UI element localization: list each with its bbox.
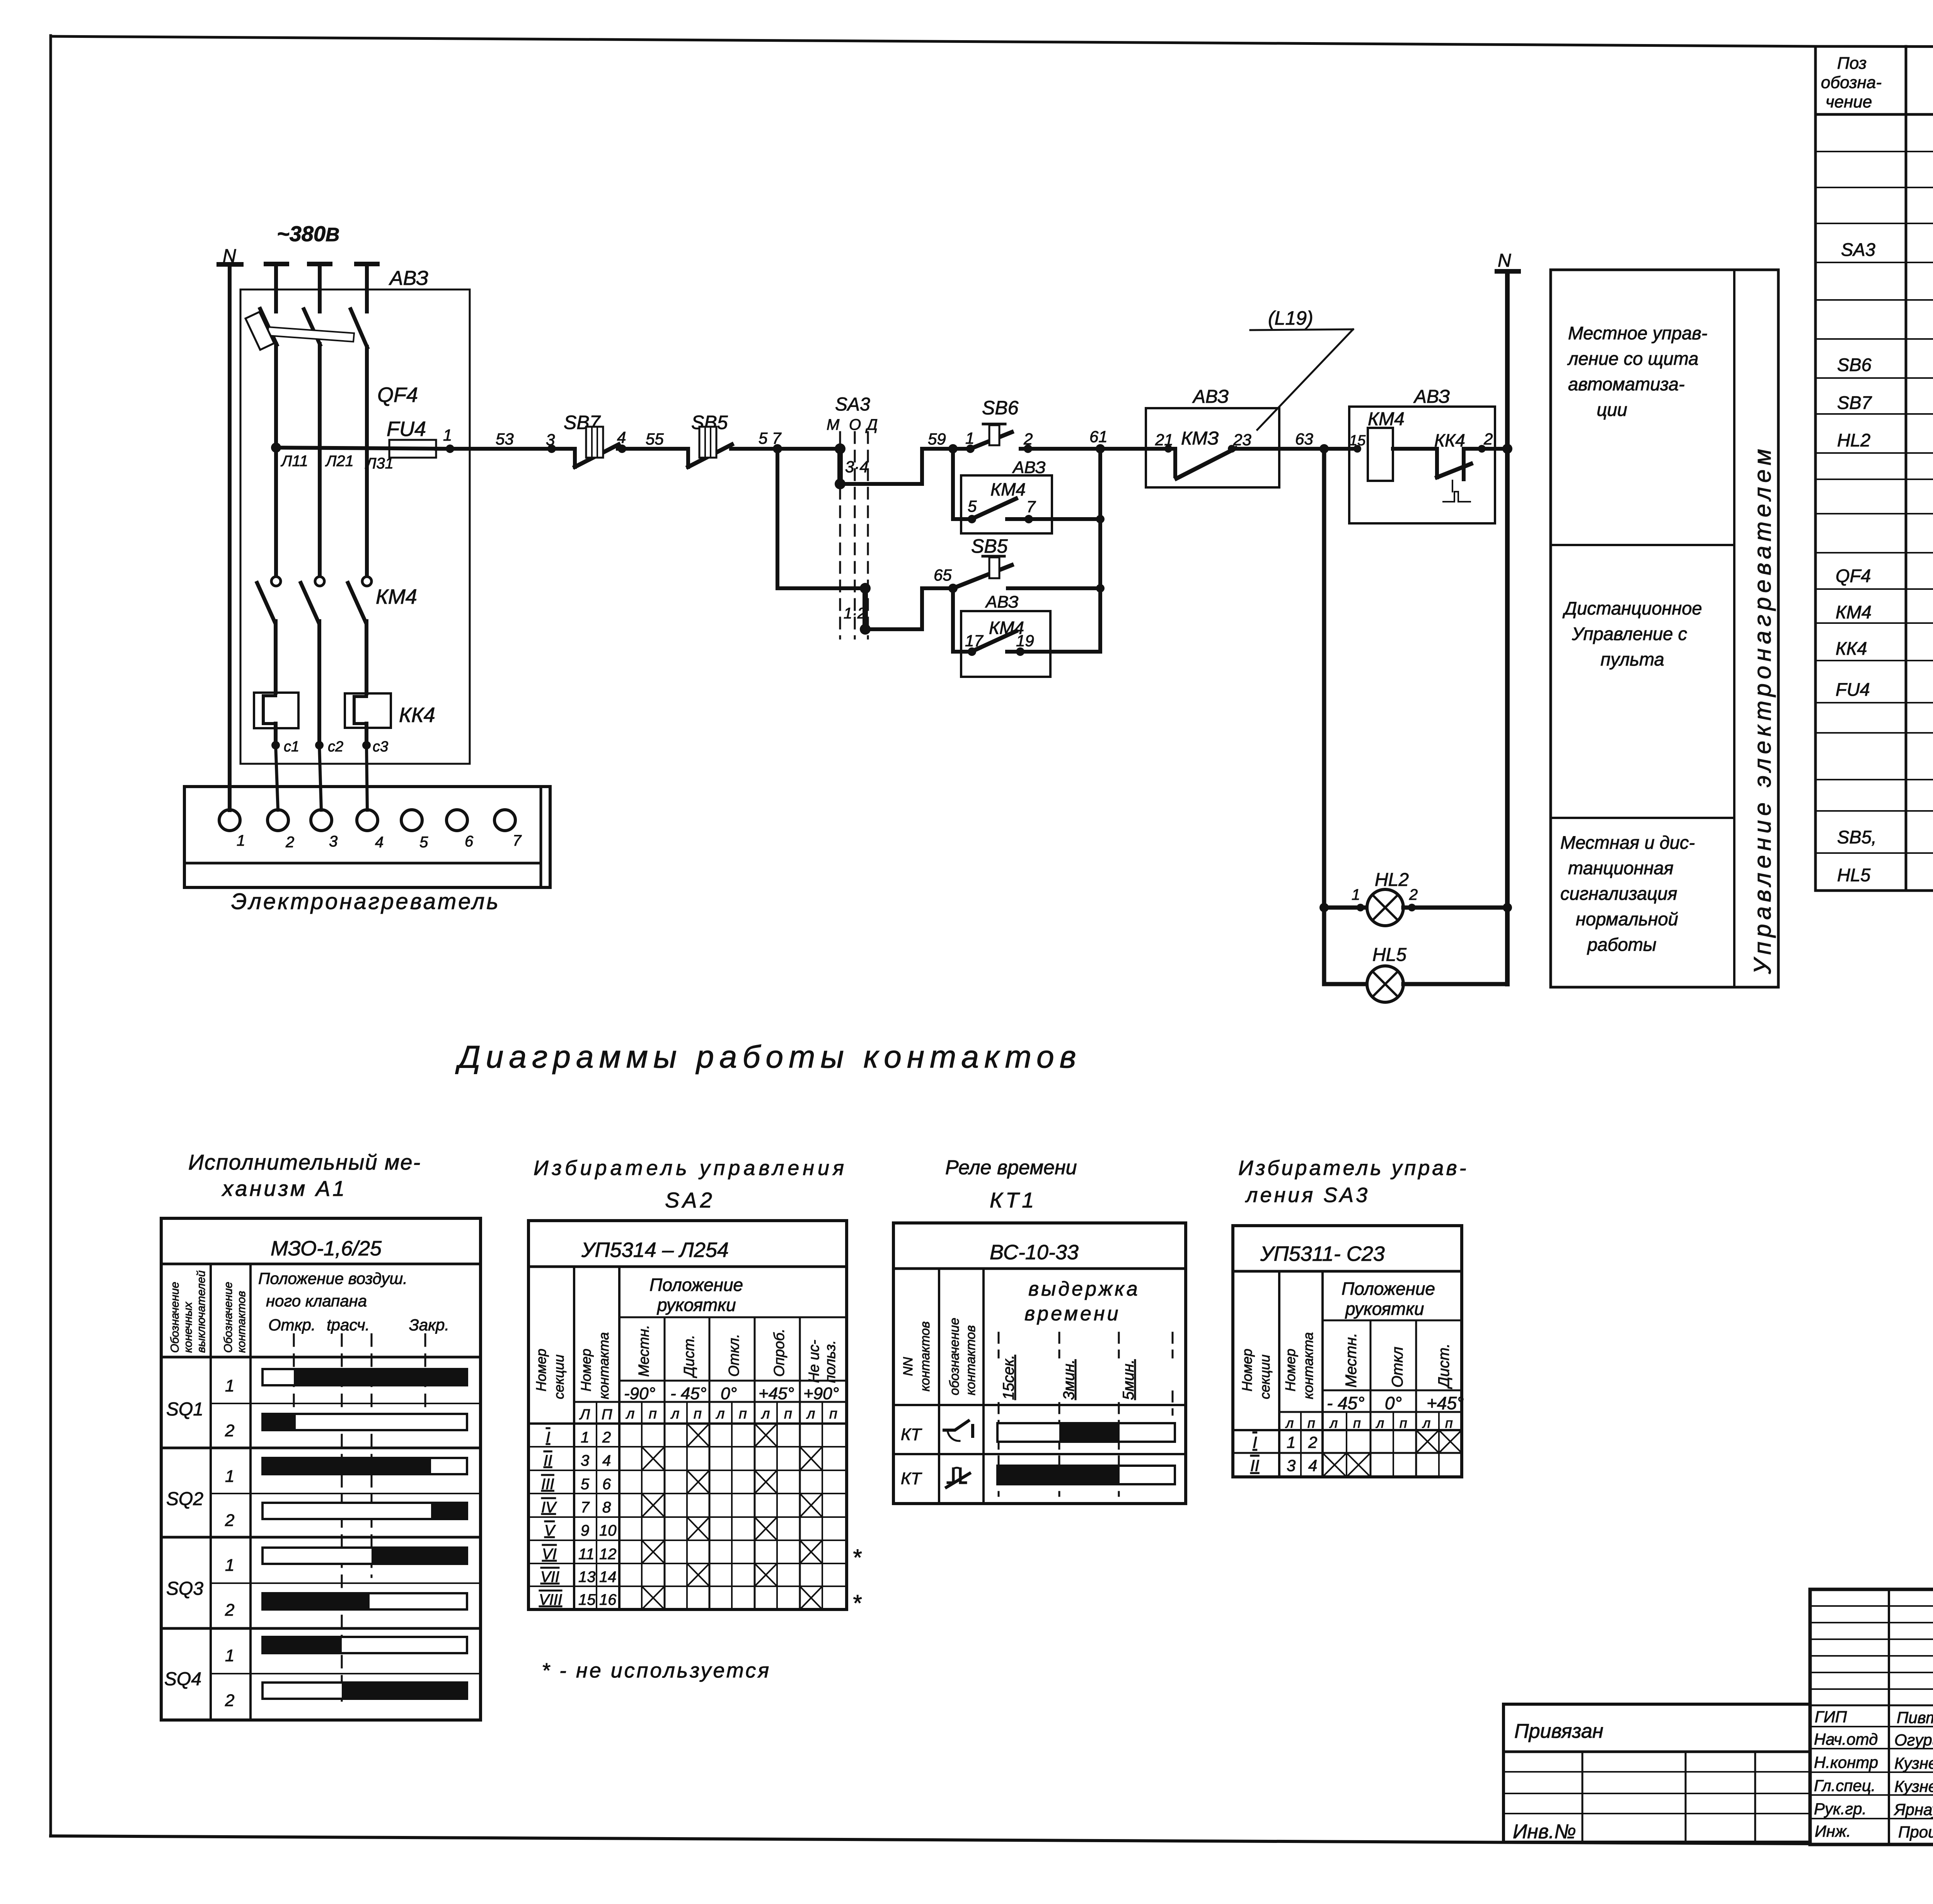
svg-text:Поз: Поз xyxy=(1837,54,1867,73)
heater terminal 6 xyxy=(447,810,467,831)
svg-text:2: 2 xyxy=(1483,430,1493,448)
frame top border xyxy=(51,36,1815,46)
wire C3 to heater xyxy=(366,745,367,810)
note local control xyxy=(1567,323,1707,420)
node 57 xyxy=(773,444,782,453)
svg-text:FU4: FU4 xyxy=(1836,679,1870,700)
node lamp branch top xyxy=(1319,903,1329,912)
breaker QF4 crossbar link xyxy=(268,327,354,342)
svg-text:л: л xyxy=(626,1406,634,1422)
л/п subcolumn letters xyxy=(579,1406,837,1423)
svg-text:с1: с1 xyxy=(284,739,299,755)
node 61 xyxy=(1096,444,1105,453)
svg-text:Номер: Номер xyxy=(533,1349,549,1391)
svg-text:HL5: HL5 xyxy=(1837,865,1871,885)
svg-text:п: п xyxy=(784,1406,792,1422)
svg-text:л: л xyxy=(806,1406,815,1422)
wire node 63 down xyxy=(1322,449,1326,984)
svg-text:работы: работы xyxy=(1587,934,1657,955)
note signalling xyxy=(1560,832,1695,955)
svg-text:времени: времени xyxy=(1024,1303,1121,1325)
svg-text:Дист.: Дист. xyxy=(1435,1344,1452,1389)
svg-text:Управление с: Управление с xyxy=(1572,623,1687,644)
svg-text:+45°: +45° xyxy=(1427,1393,1464,1413)
svg-text:Номер: Номер xyxy=(1282,1349,1298,1391)
svg-text:-90°: -90° xyxy=(624,1384,655,1403)
parts table header xyxy=(1821,54,1933,111)
svg-text:SВ5,: SВ5, xyxy=(1837,827,1877,847)
svg-text:Огурцов: Огурцов xyxy=(1894,1731,1933,1749)
svg-text:Инж.: Инж. xyxy=(1815,1822,1851,1840)
svg-text:53: 53 xyxy=(496,430,514,448)
dashed guide Закр xyxy=(424,1334,426,1430)
node 63 xyxy=(1319,444,1329,453)
svg-text:танционная: танционная xyxy=(1568,858,1674,878)
svg-text:1·2: 1·2 xyxy=(844,605,866,622)
node 1 xyxy=(446,444,454,453)
svg-text:л: л xyxy=(1329,1415,1338,1431)
DIAGRAM-TABLES xyxy=(161,1039,1469,1720)
svg-text:II: II xyxy=(1250,1456,1260,1475)
svg-text:Положение воздуш.: Положение воздуш. xyxy=(258,1269,407,1287)
svg-text:Проимкина: Проимкина xyxy=(1898,1823,1933,1841)
X marks SA2 xyxy=(642,1424,822,1609)
heater terminal 2 xyxy=(268,810,288,831)
svg-text:л: л xyxy=(761,1406,770,1422)
svg-text:III: III xyxy=(541,1476,554,1493)
svg-text:- 45°: - 45° xyxy=(670,1384,706,1403)
signature rows xyxy=(1810,1726,1933,1727)
svg-text:КМ4: КМ4 xyxy=(1836,602,1872,622)
svg-text:Л11: Л11 xyxy=(280,453,308,470)
svg-text:HL5: HL5 xyxy=(1372,945,1406,965)
svg-text:SQ3: SQ3 xyxy=(166,1579,203,1599)
heater terminal 4 xyxy=(357,810,378,831)
svg-text:2: 2 xyxy=(225,1511,234,1530)
svg-text:КК4: КК4 xyxy=(399,703,435,727)
bar SQ1-1 xyxy=(263,1369,467,1385)
TITLE-BLOCK xyxy=(1503,1589,1933,1878)
svg-text:Положение: Положение xyxy=(649,1275,743,1295)
wire HL5 to N xyxy=(1403,982,1507,986)
wire to node 57 xyxy=(731,447,840,451)
wire 65 down xyxy=(953,588,972,652)
svg-text:контактов: контактов xyxy=(235,1291,248,1353)
svg-text:1: 1 xyxy=(581,1429,589,1446)
svg-text:2: 2 xyxy=(225,1421,234,1440)
thermal relay KK4 element pole 3 xyxy=(345,693,391,728)
svg-text:Кузнецов: Кузнецов xyxy=(1894,1777,1933,1795)
wire contact 3-4 to node 59 xyxy=(840,449,953,484)
box АВЗ (contact KM3) xyxy=(1146,408,1279,487)
wire node61 down xyxy=(1098,449,1102,652)
frame left border xyxy=(49,36,52,1836)
svg-text:выдержка: выдержка xyxy=(1028,1278,1140,1300)
svg-text:tрасч.: tрасч. xyxy=(327,1316,370,1334)
svg-text:HL2: HL2 xyxy=(1375,870,1409,890)
svg-text:2: 2 xyxy=(1308,1433,1317,1451)
svg-text:4: 4 xyxy=(602,1452,611,1469)
bar SQ4-1 xyxy=(263,1637,467,1653)
svg-text:14: 14 xyxy=(599,1569,617,1586)
svg-text:3·4: 3·4 xyxy=(845,458,869,476)
title block verticals xyxy=(1888,1589,1890,1844)
box АВЗ (KM4 coil + KK4) xyxy=(1349,407,1495,523)
svg-text:1: 1 xyxy=(225,1467,234,1486)
svg-text:Дистанционное: Дистанционное xyxy=(1562,598,1702,618)
svg-text:Ярнаутова: Ярнаутова xyxy=(1894,1800,1933,1819)
note remote control xyxy=(1562,598,1702,669)
svg-text:6: 6 xyxy=(602,1476,611,1493)
selector SA3 position line Д xyxy=(867,432,869,639)
svg-text:12: 12 xyxy=(599,1546,617,1563)
svg-text:SВ5: SВ5 xyxy=(971,535,1008,557)
svg-text:16: 16 xyxy=(599,1591,617,1608)
svg-text:65: 65 xyxy=(934,566,952,584)
node Л11 xyxy=(271,443,281,453)
svg-text:3: 3 xyxy=(1287,1456,1295,1475)
svg-text:7: 7 xyxy=(513,832,522,849)
svg-text:ление со щита: ление со щита xyxy=(1567,348,1698,369)
svg-text:Откр.: Откр. xyxy=(268,1316,316,1334)
wire 19 to vertical xyxy=(1020,650,1100,654)
svg-text:секции: секции xyxy=(551,1354,567,1399)
svg-text:QF4: QF4 xyxy=(1836,565,1871,586)
svg-text:КМЗ: КМЗ xyxy=(1181,428,1219,449)
svg-text:Управление электронагревателе: Управление электронагревателем xyxy=(1749,445,1776,974)
table УП5311 frame xyxy=(1233,1226,1462,1477)
table УП5314 frame xyxy=(528,1221,847,1609)
svg-text:15: 15 xyxy=(1349,433,1366,449)
degree row xyxy=(1323,1390,1462,1391)
wire HL5 branch xyxy=(1324,982,1367,986)
wire coil to KK4 xyxy=(1393,447,1437,451)
wire 2 to node 61 xyxy=(1028,447,1100,451)
wire 55 xyxy=(622,447,688,451)
svg-text:Обозначение: Обозначение xyxy=(222,1282,235,1353)
wire FU4 to node 1 xyxy=(436,447,450,451)
svg-text:КМ4: КМ4 xyxy=(376,585,417,608)
node 4 xyxy=(618,447,622,451)
svg-text:VIII: VIII xyxy=(539,1591,562,1608)
svg-text:4: 4 xyxy=(617,428,626,446)
svg-text:Рук.гр.: Рук.гр. xyxy=(1814,1800,1867,1818)
svg-text:КТ: КТ xyxy=(901,1425,922,1444)
svg-text:19: 19 xyxy=(1016,632,1034,650)
wire pole2 down xyxy=(318,344,322,576)
svg-text:7: 7 xyxy=(1026,497,1036,516)
svg-text:обозначение: обозначение xyxy=(947,1318,962,1395)
svg-text:Дист.: Дист. xyxy=(681,1335,697,1378)
svg-text:11: 11 xyxy=(578,1546,595,1563)
svg-text:обозна-: обозна- xyxy=(1821,73,1882,92)
svg-text:13: 13 xyxy=(578,1569,596,1586)
svg-text:Инв.№: Инв.№ xyxy=(1513,1821,1576,1843)
bar SQ2-2 xyxy=(263,1503,467,1519)
svg-text:Л: Л xyxy=(579,1407,590,1423)
svg-text:ления SА3: ления SА3 xyxy=(1245,1184,1370,1207)
svg-text:FU4: FU4 xyxy=(387,417,426,441)
svg-text:п: п xyxy=(1445,1415,1453,1431)
svg-text:ханизм А1: ханизм А1 xyxy=(221,1176,347,1201)
svg-text:9: 9 xyxy=(581,1522,589,1539)
svg-text:15: 15 xyxy=(578,1591,596,1608)
svg-text:8: 8 xyxy=(602,1499,611,1516)
svg-text:Д: Д xyxy=(865,416,878,433)
wire 63 to box xyxy=(1324,447,1357,451)
node 3 xyxy=(547,444,556,453)
svg-text:Местная и дис-: Местная и дис- xyxy=(1560,832,1695,853)
heater terminal 3 xyxy=(311,810,332,831)
svg-text:п: п xyxy=(829,1406,837,1422)
svg-text:6: 6 xyxy=(465,833,474,850)
RIGHT-TEXTBOXES xyxy=(1551,270,1778,987)
svg-text:л: л xyxy=(670,1406,679,1422)
svg-text:IV: IV xyxy=(541,1499,557,1516)
svg-text:АВЗ: АВЗ xyxy=(1413,387,1450,407)
svg-text:SВ6: SВ6 xyxy=(982,397,1019,419)
svg-text:с3: с3 xyxy=(373,739,388,755)
bar SQ4-2 xyxy=(263,1683,467,1699)
svg-text:с2: с2 xyxy=(328,739,343,755)
svg-text:2: 2 xyxy=(1409,886,1418,903)
svg-text:5: 5 xyxy=(581,1476,590,1493)
table MZO-1,6/25 frame xyxy=(161,1218,481,1720)
svg-text:контактов: контактов xyxy=(963,1325,978,1395)
svg-text:пульта: пульта xyxy=(1601,649,1664,669)
fuse FU4 xyxy=(389,440,436,458)
svg-text:ВС-10-33: ВС-10-33 xyxy=(990,1241,1079,1264)
svg-text:1: 1 xyxy=(225,1646,234,1665)
svg-text:5мин.: 5мин. xyxy=(1120,1359,1137,1400)
svg-text:3мин.: 3мин. xyxy=(1060,1359,1077,1400)
svg-text:УП5311- С23: УП5311- С23 xyxy=(1260,1242,1385,1265)
breaker QF4 trip box xyxy=(245,312,274,350)
svg-text:УП5314 – Л254: УП5314 – Л254 xyxy=(581,1238,729,1262)
col header air valve position xyxy=(258,1269,449,1334)
section numbers and contacts xyxy=(539,1429,617,1608)
heater terminal 5 xyxy=(401,810,422,831)
svg-text:1: 1 xyxy=(965,429,974,447)
svg-text:чение: чение xyxy=(1826,92,1872,111)
svg-text:V: V xyxy=(544,1522,556,1539)
svg-text:Не ис-: Не ис- xyxy=(806,1340,822,1383)
wire 23 to node 63 xyxy=(1232,447,1324,451)
node 15 xyxy=(1353,445,1361,453)
svg-text:3: 3 xyxy=(329,833,338,850)
bar SQ1-2 xyxy=(263,1414,467,1430)
svg-text:Кузнецов: Кузнецов xyxy=(1894,1754,1933,1772)
node on N xyxy=(1502,444,1512,454)
svg-text:Избиратель управления: Избиратель управления xyxy=(534,1156,847,1180)
svg-text:контакта: контакта xyxy=(596,1332,612,1399)
svg-text:- 45°: - 45° xyxy=(1327,1393,1365,1413)
svg-text:Откл: Откл xyxy=(1389,1347,1406,1388)
wire control tap xyxy=(276,448,450,449)
svg-text:7: 7 xyxy=(581,1499,590,1516)
svg-text:л: л xyxy=(1422,1415,1430,1431)
data row lines xyxy=(528,1422,847,1425)
svg-text:15сек.: 15сек. xyxy=(1000,1355,1017,1400)
node L2 supply terminal xyxy=(309,262,330,266)
svg-text:Нач.отд: Нач.отд xyxy=(1814,1730,1878,1748)
svg-text:Местн.: Местн. xyxy=(636,1325,652,1377)
wire 2 to N xyxy=(1464,447,1507,451)
svg-text:ного клапана: ного клапана xyxy=(266,1292,367,1310)
svg-text:3: 3 xyxy=(581,1452,589,1469)
svg-text:п: п xyxy=(694,1406,702,1422)
node L3 supply terminal xyxy=(356,262,377,266)
position columns xyxy=(664,1317,666,1609)
svg-text:1: 1 xyxy=(1352,886,1360,903)
contact SA3 3-4 xyxy=(837,449,843,484)
svg-text:контакта: контакта xyxy=(1300,1332,1316,1399)
dashed guide tрасч 1 xyxy=(341,1334,343,1701)
svg-text:Гл.спец.: Гл.спец. xyxy=(1814,1776,1876,1795)
svg-text:КМ4: КМ4 xyxy=(1368,409,1405,429)
svg-text:1: 1 xyxy=(225,1556,234,1575)
position columns xyxy=(1370,1320,1372,1477)
heater terminal 1 xyxy=(219,810,240,831)
svg-text:VII: VII xyxy=(540,1569,559,1586)
svg-text:2: 2 xyxy=(225,1691,234,1710)
contactor KM4 pole 2 xyxy=(315,577,324,586)
svg-text:2: 2 xyxy=(602,1429,611,1446)
svg-text:SВ6: SВ6 xyxy=(1837,354,1872,375)
heater terminal 7 xyxy=(494,810,515,831)
svg-text:Избиратель управ-: Избиратель управ- xyxy=(1238,1156,1469,1180)
svg-text:I: I xyxy=(1253,1433,1257,1451)
bar KT1 xyxy=(997,1423,1175,1442)
svg-text:SА3: SА3 xyxy=(1841,239,1875,260)
svg-text:QF4: QF4 xyxy=(377,383,418,407)
node C2 xyxy=(315,741,324,749)
selector SA3 position line M xyxy=(839,432,841,639)
svg-text:Положение: Положение xyxy=(1342,1279,1435,1299)
svg-text:Местн.: Местн. xyxy=(1343,1333,1360,1388)
wire 53 xyxy=(450,447,552,451)
svg-text:Номер: Номер xyxy=(1239,1349,1255,1391)
left attachment box xyxy=(1503,1704,1810,1842)
svg-text:SВ7: SВ7 xyxy=(1837,392,1872,413)
svg-text:п: п xyxy=(1307,1415,1315,1431)
svg-text:Диаграммы работы контактов: Диаграммы работы контактов xyxy=(455,1039,1081,1075)
wire 61 to KM3 box xyxy=(1100,447,1168,451)
svg-text:2: 2 xyxy=(225,1601,234,1620)
svg-text:п: п xyxy=(739,1406,747,1422)
contactor KM4 pole 3 xyxy=(362,577,372,586)
svg-text:Обозначение: Обозначение xyxy=(169,1282,181,1353)
svg-text:SА3: SА3 xyxy=(835,394,870,415)
node 59 xyxy=(948,444,958,453)
svg-text:КТ: КТ xyxy=(901,1469,922,1488)
svg-text:0°: 0° xyxy=(1385,1393,1402,1413)
svg-text:МЗО-1,6/25: МЗО-1,6/25 xyxy=(271,1237,382,1260)
svg-text:SQ4: SQ4 xyxy=(164,1669,201,1689)
svg-text:Закр.: Закр. xyxy=(409,1316,449,1334)
wire C1 to heater xyxy=(276,745,278,810)
svg-text:4: 4 xyxy=(375,834,384,851)
function box frame xyxy=(1551,270,1778,987)
svg-text:~380В: ~380В xyxy=(277,221,339,246)
svg-text:55: 55 xyxy=(646,430,664,448)
wire HL2 branch xyxy=(1324,906,1367,910)
degree row xyxy=(619,1380,847,1382)
svg-text:Привязан: Привязан xyxy=(1514,1720,1603,1742)
table ВС-10-33 frame xyxy=(893,1223,1186,1504)
parts table grid xyxy=(1815,46,1933,48)
dashed guides xyxy=(998,1333,1000,1357)
wire N down to heater xyxy=(228,264,232,810)
bar SQ2-1 xyxy=(263,1458,467,1474)
wire C2 to heater xyxy=(319,745,321,810)
thermal relay KK4 element pole 1 xyxy=(254,693,298,728)
svg-text:SQ1: SQ1 xyxy=(166,1399,203,1420)
svg-text:2: 2 xyxy=(285,834,294,851)
svg-text:1: 1 xyxy=(225,1376,234,1395)
node C3 xyxy=(362,741,371,749)
X marks SA3 xyxy=(1323,1430,1462,1477)
contact SA3 1-2 xyxy=(863,588,868,629)
signature labels xyxy=(1814,1708,1933,1841)
node C1 xyxy=(271,741,280,749)
node L1 supply terminal xyxy=(266,262,287,266)
title block frame xyxy=(1810,1589,1933,1844)
svg-text:АВЗ: АВЗ xyxy=(1192,387,1229,407)
svg-text:5: 5 xyxy=(968,497,977,515)
svg-text:П: П xyxy=(602,1407,612,1423)
svg-text:Номер: Номер xyxy=(578,1349,594,1391)
enclosure box АВЗ (power cabinet) xyxy=(240,290,470,764)
svg-text:* - не используется: * - не используется xyxy=(542,1659,771,1682)
svg-text:61: 61 xyxy=(1089,427,1108,446)
svg-text:нормальной: нормальной xyxy=(1576,909,1678,929)
svg-text:63: 63 xyxy=(1295,430,1313,448)
svg-text:АВЗ: АВЗ xyxy=(389,267,428,290)
svg-text:10: 10 xyxy=(599,1522,617,1539)
svg-text:сигнализация: сигнализация xyxy=(1560,883,1677,904)
svg-text:Откл.: Откл. xyxy=(726,1334,742,1377)
data rows xyxy=(1233,1429,1462,1431)
bar SQ3-1 xyxy=(263,1548,467,1564)
CONTROL-LINE xyxy=(387,250,1519,984)
bar SQ3-2 xyxy=(263,1593,467,1609)
svg-text:ции: ции xyxy=(1597,399,1627,420)
svg-text:2: 2 xyxy=(1023,430,1033,448)
svg-text:NN: NN xyxy=(901,1357,915,1376)
svg-text:рукоятки: рукоятки xyxy=(1345,1299,1424,1319)
svg-text:0°: 0° xyxy=(721,1384,737,1403)
wire contact 1-2 to node 65 xyxy=(865,588,953,629)
thin revision rows xyxy=(1810,1605,1933,1607)
svg-text:5 7: 5 7 xyxy=(759,429,782,447)
wire 7 to vertical xyxy=(1029,517,1100,521)
svg-text:Реле времени: Реле времени xyxy=(945,1156,1077,1179)
bar KT2 xyxy=(997,1466,1175,1484)
LAMPS xyxy=(1319,449,1512,1002)
svg-text:КТ1: КТ1 xyxy=(990,1188,1037,1212)
svg-text:Электронагреватель: Электронагреватель xyxy=(231,889,500,914)
svg-text:1: 1 xyxy=(237,832,245,849)
svg-text:рукоятки: рукоятки xyxy=(656,1295,736,1315)
dashed guide Откр xyxy=(293,1334,295,1407)
svg-text:+45°: +45° xyxy=(759,1384,794,1403)
selector SA3 position line O xyxy=(854,432,856,639)
svg-text:3: 3 xyxy=(546,431,555,449)
svg-text:АВЗ: АВЗ xyxy=(1012,458,1046,477)
svg-text:М: М xyxy=(827,416,840,433)
svg-text:Пивторак: Пивторак xyxy=(1897,1708,1933,1727)
